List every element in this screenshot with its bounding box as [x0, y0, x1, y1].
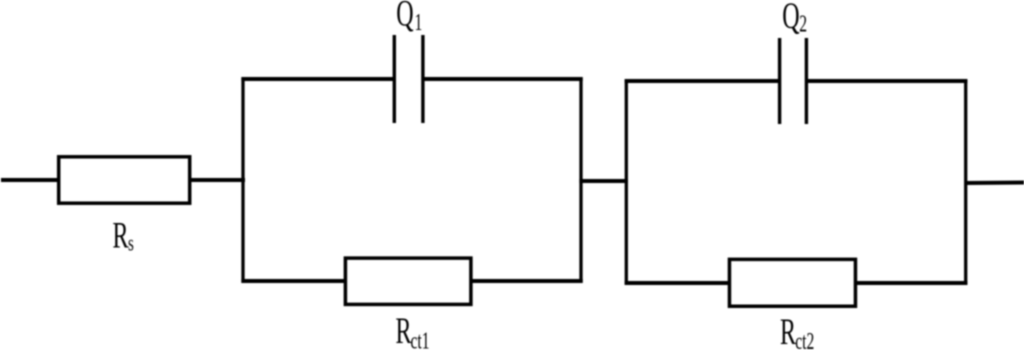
label Q1 — [396, 0, 422, 36]
svg-text:Q: Q — [396, 0, 413, 34]
capacitor Q1 (CPE) right plate — [421, 35, 424, 123]
wire: bottom branch right segment (block 2) — [856, 281, 968, 285]
right bar of second parallel block — [964, 79, 967, 284]
label Rct2 — [780, 311, 814, 350]
capacitor Q2 (CPE) right plate — [805, 38, 808, 124]
resistor Rct2 — [729, 259, 855, 306]
label Rs — [113, 214, 134, 256]
svg-text:ct1: ct1 — [411, 328, 430, 350]
wire: junction between blocks — [579, 179, 628, 183]
left bar of second parallel block — [625, 79, 628, 284]
label Q2 — [782, 0, 807, 37]
svg-text:R: R — [396, 310, 412, 350]
wire: top branch right segment (block 2) — [806, 79, 967, 83]
wire: top branch right segment (block 1) — [423, 77, 583, 81]
svg-text:Q: Q — [782, 0, 799, 36]
svg-text:ct2: ct2 — [795, 329, 814, 350]
wire: bottom branch right segment (block 1) — [471, 279, 583, 283]
svg-text:1: 1 — [415, 10, 423, 36]
wire: output lead — [966, 181, 1024, 186]
svg-text:2: 2 — [799, 11, 807, 37]
capacitor Q2 (CPE) left plate — [778, 38, 781, 124]
wire: Rs to node A — [189, 178, 246, 182]
wire: top branch left segment (block 1) — [241, 77, 394, 81]
resistor Rct1 — [345, 258, 471, 304]
svg-text:R: R — [113, 214, 129, 256]
right bar of first parallel block — [579, 77, 582, 282]
resistor Rs — [59, 157, 190, 203]
svg-text:s: s — [128, 232, 134, 257]
svg-text:R: R — [780, 311, 796, 350]
node A: left bar of first parallel block — [241, 77, 244, 282]
wire: bottom branch left segment (block 2) — [625, 281, 730, 285]
wire: bottom branch left segment (block 1) — [241, 279, 345, 283]
capacitor Q1 (CPE) left plate — [393, 35, 396, 123]
wire: top branch left segment (block 2) — [625, 79, 780, 83]
label Rct1 — [396, 310, 430, 350]
wire: input lead — [1, 178, 59, 182]
